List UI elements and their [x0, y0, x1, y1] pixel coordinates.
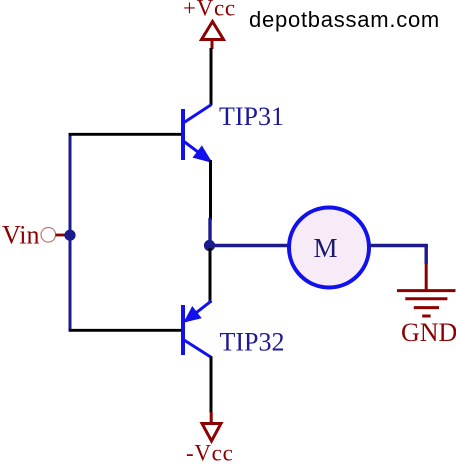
svg-text:depotbassam.com: depotbassam.com — [249, 7, 440, 32]
junction Vin dot — [64, 230, 75, 241]
label TIP31 — [219, 102, 284, 131]
wire ground stem (dark red) — [425, 263, 428, 291]
power symbol -Vcc (down arrow) — [202, 412, 221, 441]
svg-text:GND: GND — [401, 318, 456, 347]
terminal Vin (open circle) — [41, 228, 56, 243]
motor M1 body — [289, 208, 369, 288]
transistor Q1 TIP31 (NPN) — [183, 105, 212, 162]
node junction dot — [204, 240, 215, 251]
transistor Q2 TIP32 (PNP) — [183, 301, 212, 358]
wire node to motor (navy) — [209, 244, 289, 247]
svg-text:TIP32: TIP32 — [220, 328, 285, 357]
svg-text:+Vcc: +Vcc — [183, 0, 236, 21]
power symbol +Vcc (up arrow) — [202, 22, 224, 50]
wire Q2 collector to -Vcc (black) — [210, 357, 213, 414]
label Vin — [2, 221, 39, 250]
svg-text:Vin: Vin — [2, 221, 39, 250]
wire left vertical (Vin net, navy) — [69, 133, 72, 332]
wire +Vcc to Q1 collector — [210, 48, 213, 105]
wire node lower (black) — [209, 248, 212, 302]
watermark depotbassam.com — [249, 7, 440, 32]
label M — [313, 233, 337, 263]
wire Q1 emitter to node (black) — [209, 160, 212, 220]
wire bottom base feed (black) — [69, 329, 181, 332]
label TIP32 — [220, 328, 285, 357]
label -Vcc — [186, 441, 234, 465]
svg-text:-Vcc: -Vcc — [186, 441, 234, 465]
wire Vin stub (dark red) — [56, 234, 66, 237]
wire node upper (navy) — [208, 218, 211, 246]
label +Vcc — [183, 0, 236, 21]
label GND — [401, 318, 456, 347]
wire motor to ground corner (navy) — [369, 244, 428, 264]
ground symbol — [397, 291, 456, 316]
wire top base feed (black) — [69, 133, 181, 136]
svg-text:M: M — [313, 233, 337, 263]
svg-text:TIP31: TIP31 — [219, 102, 284, 131]
